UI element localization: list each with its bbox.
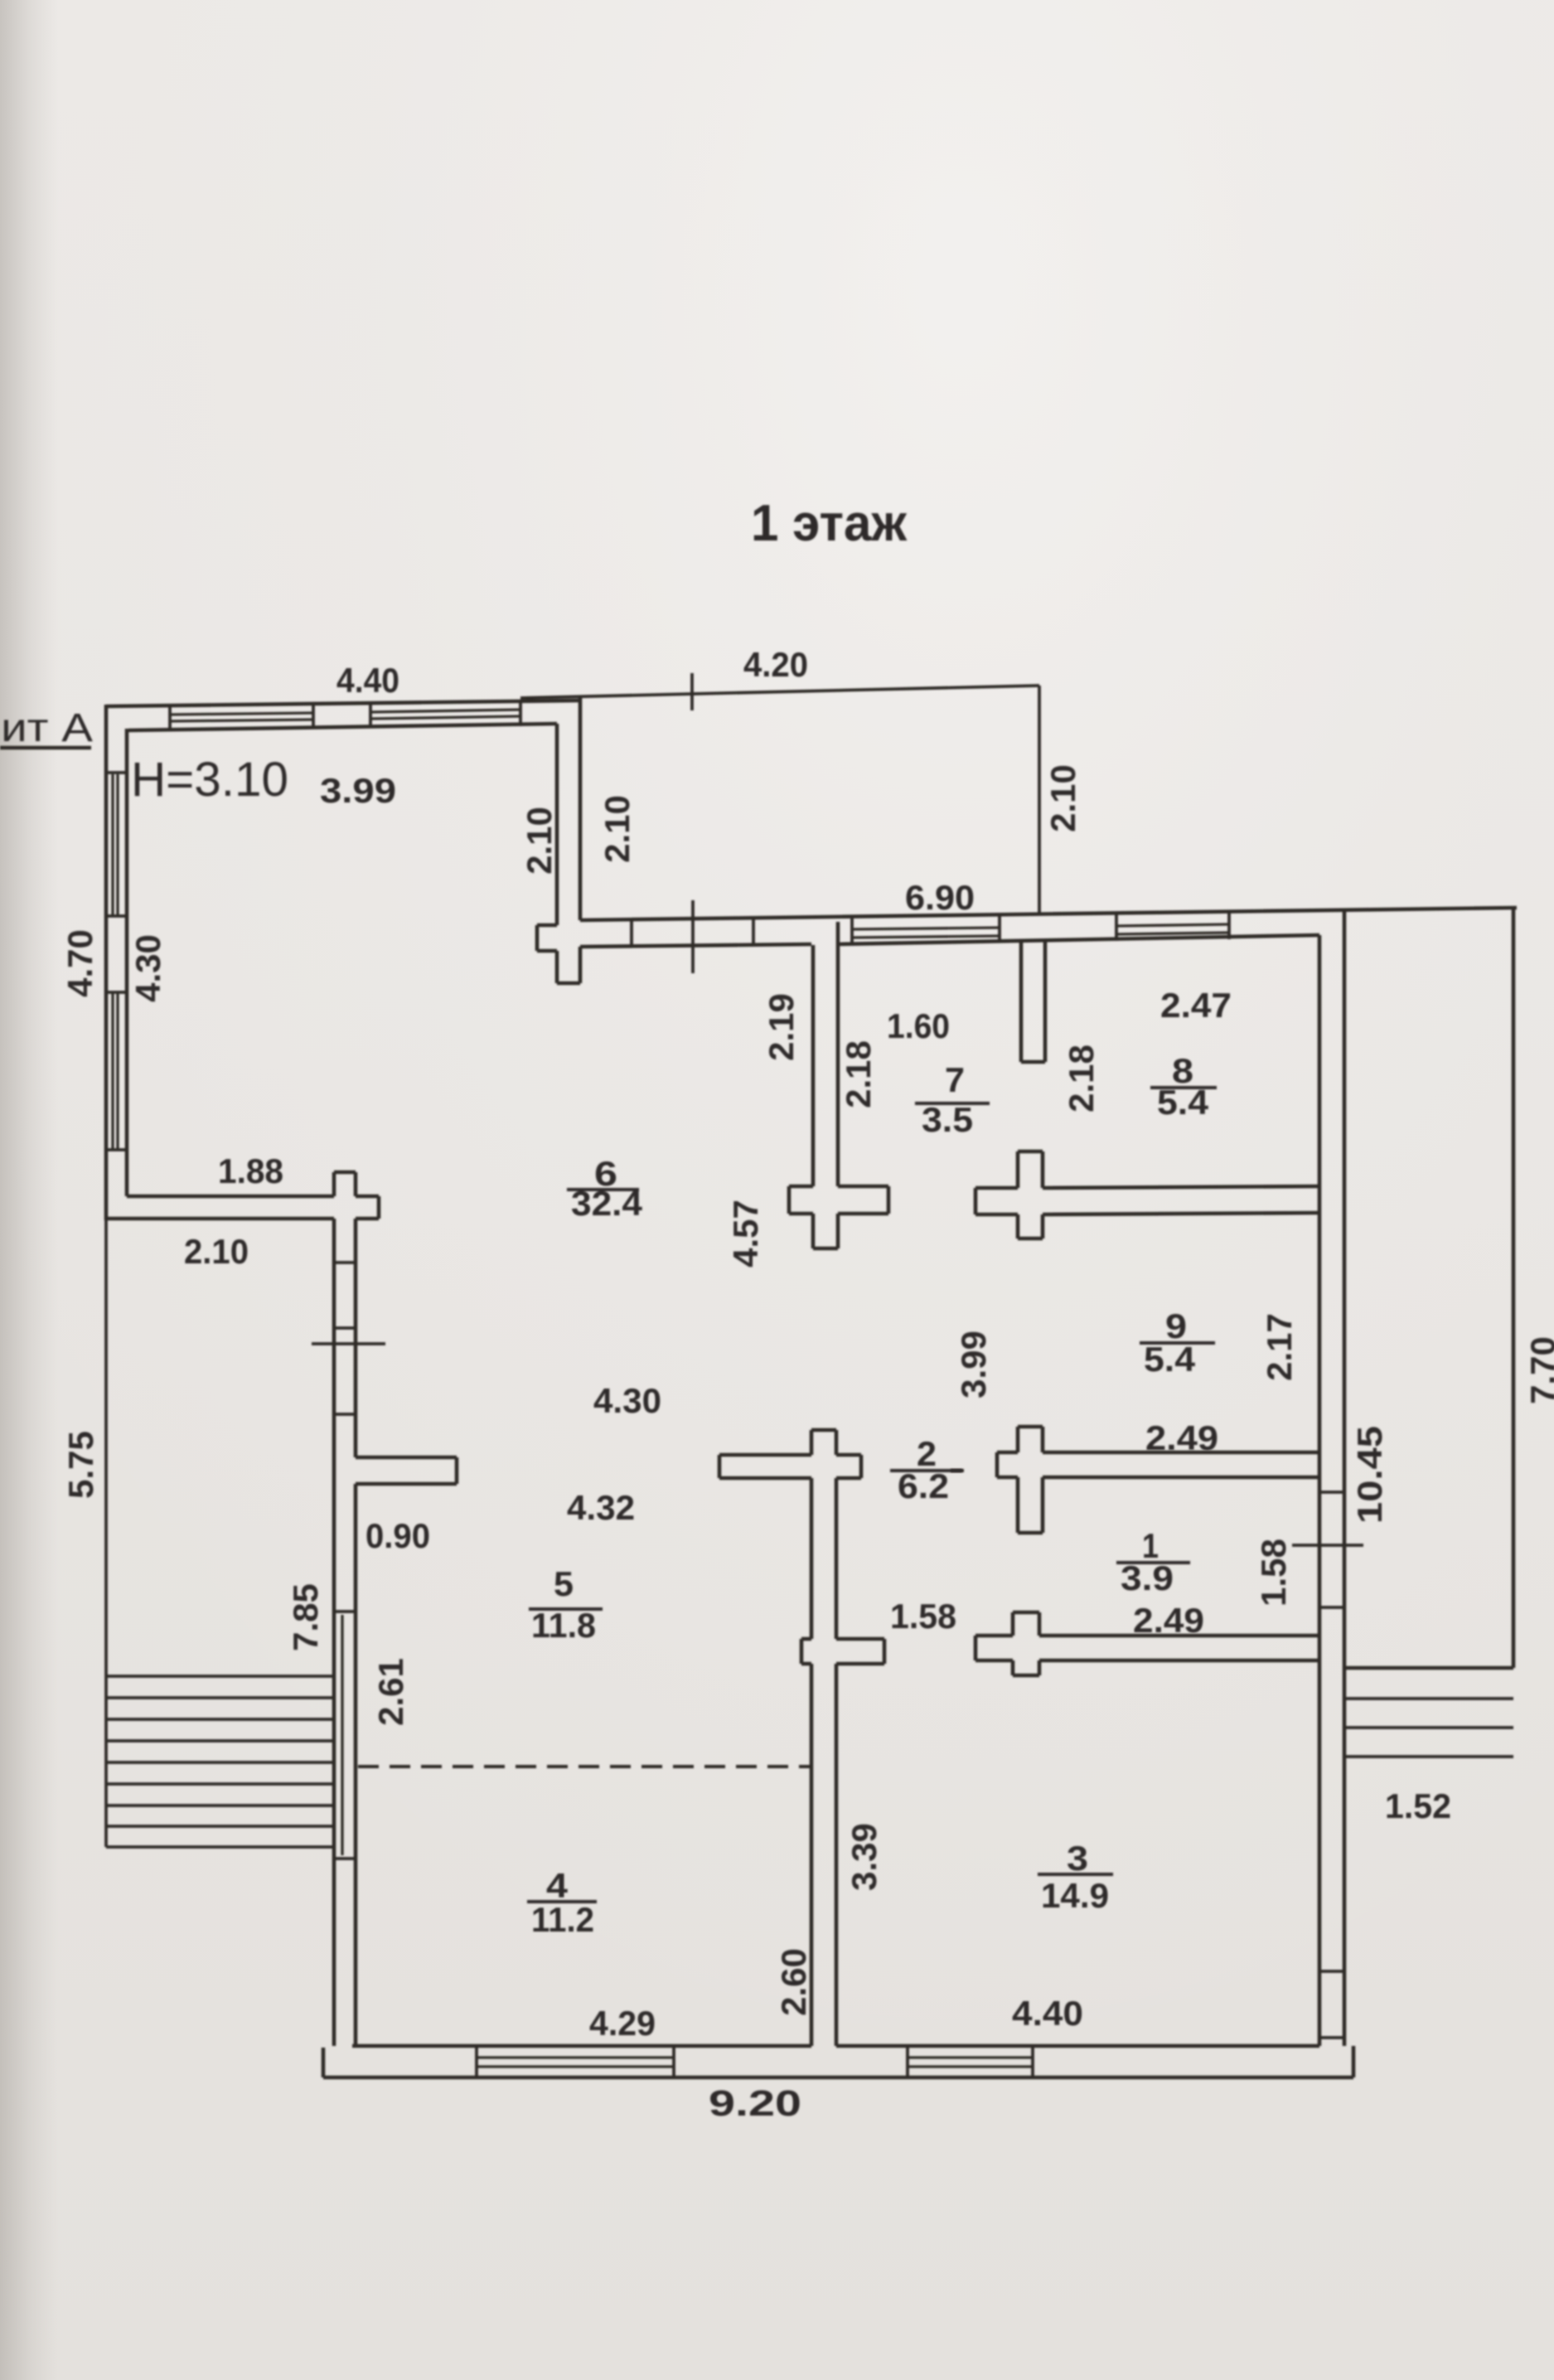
svg-text:2.47: 2.47 <box>1160 986 1232 1025</box>
svg-text:4.70: 4.70 <box>61 929 99 997</box>
wall rooms 7/8-9 bottom line <box>975 1213 1018 1217</box>
window ticks on east wall (1.58 window) <box>1319 1491 1344 1494</box>
west wall window ticks <box>334 1261 356 1264</box>
window room3 south glazing <box>908 2058 1033 2067</box>
room 2 underline <box>890 1469 962 1472</box>
window room4 south glazing <box>477 2058 674 2067</box>
door jambs in north wall of room 6 <box>630 920 633 946</box>
svg-text:1.60: 1.60 <box>887 1006 950 1045</box>
window W6 glazing (6.90 wall, second) <box>1116 924 1229 934</box>
svg-text:5: 5 <box>554 1564 574 1603</box>
window room3 south jambs <box>906 2046 909 2077</box>
partition between rooms 7 and 8 <box>1019 940 1024 1062</box>
svg-text:6.90: 6.90 <box>905 878 975 917</box>
svg-text:4.29: 4.29 <box>589 2004 656 2043</box>
svg-text:14.9: 14.9 <box>1041 1876 1109 1915</box>
svg-text:4.20: 4.20 <box>743 645 808 684</box>
wall rooms 9-1 left cap <box>995 1452 1000 1477</box>
svg-text:1.58: 1.58 <box>890 1597 956 1636</box>
window W1 jambs <box>168 707 172 730</box>
svg-text:4.40: 4.40 <box>336 661 399 700</box>
wall 1.88/2.10 right cap <box>377 1196 381 1219</box>
svg-text:2.49: 2.49 <box>1145 1418 1218 1457</box>
porch bottom line <box>1344 1666 1513 1670</box>
svg-text:2.10: 2.10 <box>520 807 559 875</box>
porch steps <box>1344 1697 1513 1700</box>
svg-text:3: 3 <box>1067 1839 1088 1878</box>
svg-text:3.39: 3.39 <box>845 1823 884 1891</box>
bottom wall end verticals <box>322 2048 326 2077</box>
svg-text:10.45: 10.45 <box>1350 1426 1389 1524</box>
window W4 glazing (left wall lower) <box>113 992 118 1150</box>
bottom wall outer line <box>323 2076 1353 2080</box>
svg-text:9.20: 9.20 <box>709 2083 801 2124</box>
svg-text:2.10: 2.10 <box>184 1232 249 1271</box>
cross at rooms 5/4/2/3 junction <box>801 1637 811 1641</box>
wall 1.88/2.10: bottom line <box>106 1217 334 1221</box>
svg-text:4.40: 4.40 <box>1012 1994 1083 2033</box>
svg-text:7: 7 <box>945 1060 965 1099</box>
svg-text:32.4: 32.4 <box>571 1184 643 1223</box>
terrace steps <box>106 1676 334 1847</box>
wall between room 6 and room 7: right line <box>836 922 840 1186</box>
svg-text:2.18: 2.18 <box>1062 1045 1101 1112</box>
corridor west wall down to cross <box>810 1478 814 1639</box>
svg-text:2.10: 2.10 <box>1043 764 1082 832</box>
svg-text:2.17: 2.17 <box>1260 1313 1299 1381</box>
wall between rooms 9 and 1: top line <box>997 1451 1018 1455</box>
room 4 underline <box>527 1900 597 1903</box>
window room4 south jambs <box>475 2046 478 2077</box>
wall: long north wall of rooms 7-8 and porch, top line <box>580 908 1517 920</box>
room 8 underline <box>1150 1086 1217 1089</box>
wall: long north wall bottom (inner) line, left of room7 wall <box>580 944 811 947</box>
svg-text:5.4: 5.4 <box>1144 1340 1196 1379</box>
wall: left inner line of top-left room <box>125 729 129 1196</box>
svg-text:5.4: 5.4 <box>1157 1083 1209 1122</box>
cross at bottom of room7 wall: arms <box>789 1185 813 1189</box>
corridor west wall T stub up <box>810 1430 814 1455</box>
vertical bar at rooms 2/9/1 junction <box>1016 1427 1020 1452</box>
svg-text:2.18: 2.18 <box>839 1040 878 1108</box>
bottom wall inner line <box>352 2044 811 2048</box>
room 1 underline <box>1116 1561 1190 1564</box>
vertical bar at rooms 7/2/9 junction <box>1016 1151 1020 1188</box>
wall cross: stub below <box>555 951 559 983</box>
svg-text:3.99: 3.99 <box>320 771 396 810</box>
wall cross at bottom of top-left room: left arm <box>537 923 557 928</box>
window W3 glazing (left wall upper) <box>113 774 118 916</box>
window W5 glazing (6.90 wall, first) <box>852 928 1000 938</box>
wall: 4.20 room right single line <box>1038 686 1041 915</box>
west wall inner line <box>354 1263 358 1457</box>
wall between rooms 7/8 and 9: top line <box>975 1186 1018 1190</box>
svg-text:1.88: 1.88 <box>218 1151 283 1190</box>
window W2 glazing on top wall <box>370 710 520 719</box>
svg-text:2.61: 2.61 <box>371 1658 410 1726</box>
wall between room 6 and room 7: left line <box>811 945 816 1186</box>
window ticks on east wall (lower window) <box>1319 1970 1344 1973</box>
wall between rooms 4 and 3 <box>810 1664 814 2046</box>
terrace left edge line <box>104 1219 108 1847</box>
svg-text:Лит А: Лит А <box>0 706 93 750</box>
west wall cross at top (1.88 junction): vertical bar <box>332 1172 336 1196</box>
partition stub 0.90 in room 5 <box>356 1456 457 1460</box>
svg-text:2.10: 2.10 <box>598 795 637 863</box>
window W6 jambs <box>1115 914 1118 941</box>
svg-text:3.5: 3.5 <box>922 1100 973 1139</box>
wall rooms 1-3 left cap <box>974 1636 978 1660</box>
room 9 underline <box>1140 1341 1215 1345</box>
porch right wall <box>1512 908 1516 1668</box>
svg-text:0.90: 0.90 <box>366 1516 430 1555</box>
small wall cap left of rooms 9/1 junction <box>951 1469 964 1472</box>
wall: 4.20 room top single line <box>520 686 1039 698</box>
wall: right wall of top-left room inner line <box>555 724 559 925</box>
wall between rooms 1 and 3: top line <box>975 1634 1013 1638</box>
wall: right wall of top-left room outer line <box>579 696 583 920</box>
title underline for Лит А <box>0 746 91 750</box>
svg-text:7.70: 7.70 <box>1523 1336 1554 1404</box>
wall: east inner line <box>1318 935 1322 2046</box>
vertical bar at rooms 2/1/3 junction <box>1011 1612 1015 1636</box>
cross stub below <box>811 1214 816 1248</box>
svg-text:3.99: 3.99 <box>954 1331 993 1398</box>
window W3/W4 jamb ticks on left wall <box>106 771 127 774</box>
room 7 underline <box>915 1102 990 1105</box>
svg-text:2.49: 2.49 <box>1133 1601 1204 1640</box>
svg-text:3.9: 3.9 <box>1121 1558 1174 1597</box>
long window tick at x836 <box>691 900 695 973</box>
svg-text:4.57: 4.57 <box>726 1200 765 1268</box>
wall rooms 9-1 bottom line <box>997 1476 1018 1480</box>
svg-text:5.75: 5.75 <box>61 1431 100 1499</box>
dimension tick on top line at 4.40/4.20 split <box>690 673 694 710</box>
wall 1.88/2.10: top line <box>127 1195 334 1199</box>
svg-text:4.30: 4.30 <box>593 1381 661 1420</box>
west wall of rooms 5/4: outer line <box>332 1263 336 2046</box>
wall: top-left room outer top (window wall) <box>106 700 580 706</box>
svg-text:1.58: 1.58 <box>1254 1539 1293 1607</box>
west wall window glazing (2.61) <box>341 1615 343 1855</box>
svg-text:4.30: 4.30 <box>128 934 167 1002</box>
wall: top-left room inner top <box>128 724 557 730</box>
wall rooms 1-3 bottom line <box>975 1659 1013 1663</box>
window W2 jambs <box>369 705 372 728</box>
svg-text:6.2: 6.2 <box>898 1466 949 1505</box>
svg-text:1.52: 1.52 <box>1385 1786 1451 1825</box>
wall rooms 7/8-9 left cap <box>974 1188 978 1214</box>
svg-text:4.32: 4.32 <box>567 1488 635 1527</box>
wall: long north wall bottom (inner) line, right of room7 wall <box>838 935 1319 944</box>
wall: east outer line <box>1343 909 1347 2046</box>
svg-text:7.85: 7.85 <box>286 1583 325 1651</box>
svg-text:1 этаж: 1 этаж <box>751 495 908 552</box>
room 6 underline <box>567 1188 639 1191</box>
window W1 glazing on top wall <box>170 713 313 721</box>
window W5 jambs <box>850 917 854 944</box>
svg-text:11.8: 11.8 <box>531 1606 596 1645</box>
svg-text:4: 4 <box>546 1866 569 1905</box>
svg-text:11.2: 11.2 <box>531 1900 594 1939</box>
svg-text:2.60: 2.60 <box>774 1948 813 2016</box>
room 5 underline <box>529 1607 603 1611</box>
room 3 underline <box>1038 1873 1113 1876</box>
wall: left outer line of top-left room <box>104 705 109 1220</box>
corridor T arm <box>719 1453 811 1457</box>
dashed partition between rooms 5 and 4 <box>358 1765 810 1768</box>
svg-text:2.19: 2.19 <box>762 993 801 1061</box>
svg-text:H=3.10: H=3.10 <box>131 753 288 807</box>
